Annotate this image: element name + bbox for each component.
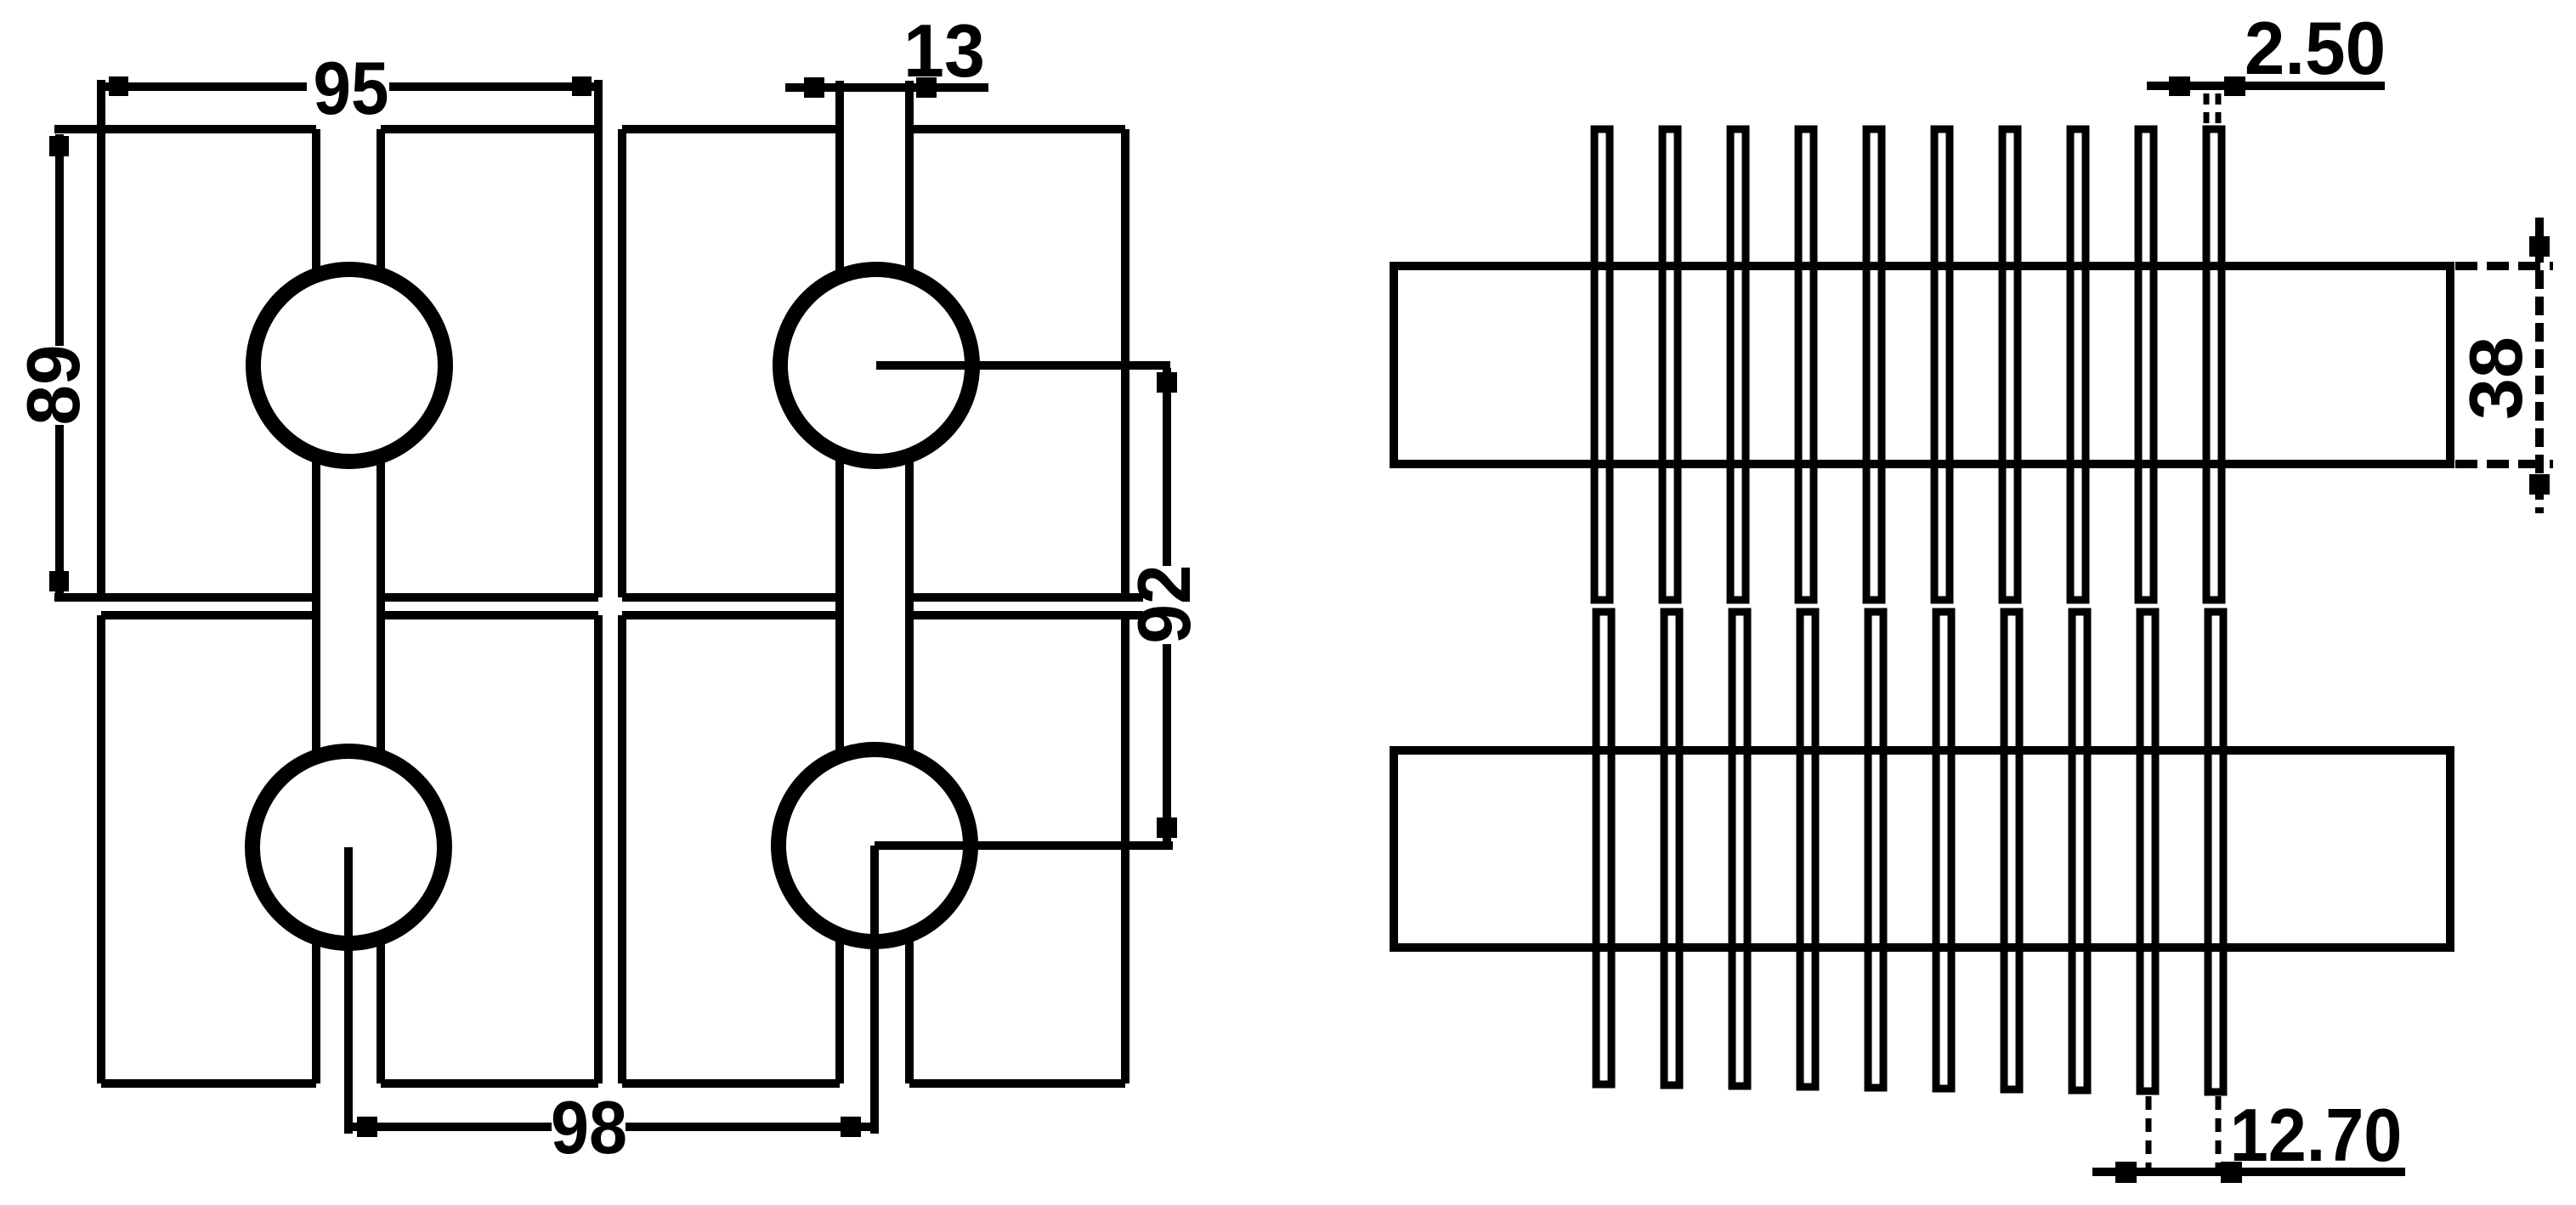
fin 5	[1866, 129, 1883, 1088]
plate lower-left	[101, 615, 598, 1083]
circle C4	[778, 750, 971, 942]
dimension 38	[2455, 218, 2553, 513]
bar top	[1394, 266, 2450, 464]
dimension 13	[785, 77, 988, 98]
plate upper-left	[54, 80, 598, 597]
vertical bar column 1	[316, 129, 381, 1083]
circle C2	[780, 269, 972, 461]
fin 2	[1662, 129, 1679, 1085]
plate upper-right	[622, 129, 1143, 597]
fin 6	[1934, 129, 1951, 1089]
fin 9	[2138, 129, 2155, 1091]
dimension 92	[1157, 368, 1177, 842]
svg-text:92: 92	[1123, 565, 1206, 644]
fin 3	[1730, 129, 1747, 1086]
svg-text:38: 38	[2454, 337, 2538, 420]
dimension 98	[344, 1117, 875, 1137]
fin 7	[2002, 129, 2019, 1089]
circle C3	[252, 751, 444, 943]
plate lower-right	[622, 615, 1143, 1083]
svg-text:12.70: 12.70	[2230, 1093, 2403, 1177]
fin 4	[1798, 129, 1815, 1087]
fin 10	[2206, 129, 2223, 1092]
dimension 12.70	[2092, 1096, 2405, 1184]
leader from C3 to 98 dimension	[344, 847, 353, 1134]
circle C1	[253, 269, 445, 461]
svg-text:98: 98	[551, 1085, 627, 1169]
svg-text:95: 95	[313, 47, 388, 130]
fin 1	[1594, 129, 1611, 1084]
dimension 95	[99, 76, 597, 96]
leader from C4 to 92 dimension	[875, 841, 1173, 850]
leader from C4 to 98 dimension	[870, 846, 879, 1134]
fin 8	[2070, 129, 2087, 1090]
dimension 89	[49, 134, 69, 596]
dimension 2.50	[2147, 76, 2385, 124]
svg-text:2.50: 2.50	[2245, 8, 2386, 90]
vertical bar column 2	[840, 81, 909, 1083]
leader from C2 to 92 dimension	[876, 361, 1170, 370]
bar bottom	[1394, 750, 2450, 948]
svg-text:13: 13	[903, 9, 985, 93]
svg-text:89: 89	[13, 345, 95, 426]
